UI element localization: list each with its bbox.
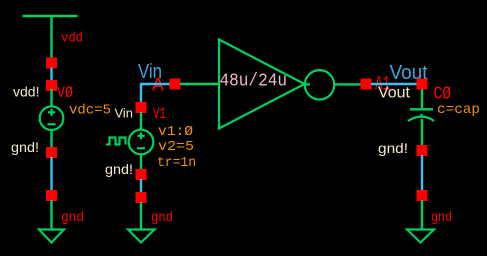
svg-text:c=cap: c=cap <box>437 102 480 118</box>
wire V0 to gnd symbol (selected blue) <box>50 157 52 191</box>
svg-text:v1:Ø: v1:Ø <box>158 124 193 140</box>
wire vdd to V0 (selected blue) <box>50 68 52 82</box>
capacitor C0 top plate <box>410 108 433 110</box>
svg-text:v2=5: v2=5 <box>158 139 194 155</box>
svg-text:Vout: Vout <box>378 85 411 102</box>
voltage source V0 circle <box>40 106 64 130</box>
wire Vin corner vertical (selected blue) <box>140 83 142 103</box>
wire Vin corner horizontal (selected blue) <box>140 83 170 85</box>
wire C0 to gnd symbol (selected blue) <box>421 155 423 191</box>
wire Vout (selected blue) <box>371 83 417 85</box>
svg-text:tr=1n: tr=1n <box>157 155 196 171</box>
ground symbol (right) <box>407 230 434 243</box>
svg-text:vdc=5: vdc=5 <box>69 103 111 119</box>
pulse waveform glyph <box>106 138 126 145</box>
pin square C0 top terminal <box>417 79 428 90</box>
ground symbol (middle) <box>128 230 155 243</box>
pin square gnd symbol (left) <box>46 190 57 201</box>
vdd supply rail symbol <box>23 16 78 60</box>
pin square gnd symbol (middle) <box>136 192 147 203</box>
wire pin to V1 source top <box>140 112 142 131</box>
svg-text:gnd!: gnd! <box>378 140 408 156</box>
ground symbol (left) <box>39 230 64 243</box>
pin square on Vin net <box>170 79 181 90</box>
svg-text:gnd!: gnd! <box>11 139 39 155</box>
pin square V0 vdd! terminal <box>46 80 57 91</box>
inverter output bubble <box>305 70 334 99</box>
svg-text:Vin: Vin <box>115 106 134 121</box>
wire V0 bottom to gnd pin <box>50 130 52 148</box>
capacitor center tick <box>421 114 423 118</box>
voltage source V1 circle <box>129 130 154 155</box>
wire pin down to capacitor <box>421 89 423 110</box>
wire pin to V0 source top <box>50 89 52 107</box>
svg-text:vdd: vdd <box>61 31 83 47</box>
pin square gnd symbol (right) <box>417 190 428 201</box>
svg-text:vdd!: vdd! <box>13 84 40 100</box>
pin square V0 minus terminal <box>46 147 57 158</box>
svg-text:48u/24u: 48u/24u <box>220 72 288 92</box>
pin square output side <box>361 79 372 90</box>
pin square C0 bottom terminal <box>417 145 428 156</box>
svg-text:A: A <box>152 75 165 97</box>
apex tick into bubble <box>303 83 310 85</box>
wire pin to inverter input <box>180 83 219 85</box>
wire pin to gnd triangle (right) <box>421 200 423 230</box>
svg-text:gnd: gnd <box>431 210 452 226</box>
svg-text:gnd: gnd <box>151 210 173 226</box>
pin square V1 minus terminal <box>136 169 147 180</box>
capacitor C0 bottom plate (curved) <box>408 117 434 121</box>
wire pin to gnd triangle (left) <box>50 200 52 230</box>
wire bubble to output pin <box>334 83 361 85</box>
wire V1 to gnd symbol (selected blue) <box>140 179 142 193</box>
svg-text:V1: V1 <box>153 105 166 123</box>
wire V1 bottom to gnd pin <box>140 154 142 170</box>
wire capacitor to gnd pin <box>421 119 423 146</box>
pin square V1 plus terminal <box>136 102 147 113</box>
wire pin to gnd triangle (middle) <box>140 202 142 230</box>
inverter U0 triangle <box>219 40 305 129</box>
pin square V0 plus terminal <box>46 58 57 69</box>
svg-text:gnd: gnd <box>61 210 84 226</box>
svg-text:VØ: VØ <box>57 84 73 102</box>
svg-text:gnd!: gnd! <box>105 161 133 177</box>
